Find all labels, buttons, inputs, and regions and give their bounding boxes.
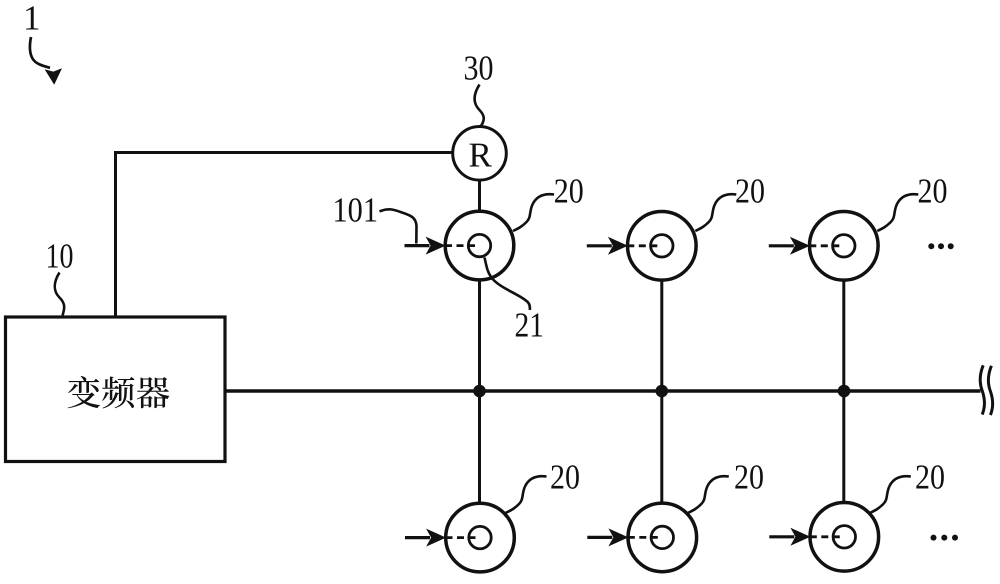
leader for M5 label 20 (688, 476, 729, 513)
motor M1 inlet arrowhead (426, 237, 446, 255)
svg-text:20: 20 (554, 172, 584, 211)
svg-text:R: R (469, 136, 493, 175)
motor M6 inner circle (833, 526, 855, 548)
ellipsis bottom row (931, 535, 937, 541)
motor M3 dashed flow line (809, 244, 840, 247)
motor M6 dashed flow line (810, 535, 841, 538)
motor M1 outer circle (445, 211, 514, 280)
motor M2 inlet arrow shaft (587, 244, 612, 247)
motor M6 outer circle (810, 503, 879, 572)
motor M6 inlet arrow shaft (769, 535, 794, 538)
leader for label 101 (380, 209, 417, 243)
junction dot node 1 (473, 385, 486, 398)
svg-text:30: 30 (464, 49, 494, 88)
wire from inverter top to resistor R (116, 153, 453, 318)
motor M2 dashed flow line (627, 244, 658, 247)
motor M3 inlet arrowhead (790, 237, 810, 255)
motor M4 outer circle (446, 503, 515, 572)
motor M3 outer circle (810, 212, 879, 281)
wire resistor R to motor M1 (478, 180, 481, 212)
wire M2 down through bus to M5 (660, 279, 663, 504)
leader for M1 label 20 (513, 194, 554, 231)
motor M2 inlet arrowhead (608, 237, 628, 255)
svg-text:20: 20 (918, 172, 948, 211)
motor M2 outer circle (628, 212, 697, 281)
motor M4 inner circle (469, 526, 491, 548)
motor M5 inlet arrow shaft (587, 536, 612, 539)
leader for M6 label 20 (870, 476, 911, 513)
ellipsis top row (928, 243, 934, 249)
motor M4 dashed flow line (446, 536, 477, 539)
leader squiggle for label 30 (475, 85, 484, 127)
motor M4 inlet arrowhead (426, 529, 446, 547)
bus break symbol (980, 365, 984, 414)
leader arrow for label 1 (30, 37, 50, 68)
motor M5 dashed flow line (628, 536, 659, 539)
svg-text:20: 20 (550, 458, 580, 497)
svg-text:20: 20 (915, 458, 945, 497)
inverter box 10 (6, 317, 226, 462)
leader for M4 label 20 (506, 476, 547, 513)
motor M3 inlet arrow shaft (769, 244, 794, 247)
resistor R circle 30 (453, 127, 507, 181)
leader for M3 label 20 (877, 194, 918, 231)
svg-text:1: 1 (23, 0, 41, 38)
leader for M2 label 20 (695, 194, 736, 231)
svg-text:10: 10 (46, 237, 74, 276)
motor M3 inner circle (833, 235, 855, 257)
motor M5 inlet arrowhead (608, 528, 628, 546)
junction dot node 3 (838, 385, 851, 398)
motor M2 inner circle (651, 235, 673, 257)
svg-text:21: 21 (515, 306, 545, 345)
junction dot node 2 (656, 385, 669, 398)
motor M1 inlet arrow shaft (405, 244, 430, 247)
svg-text:20: 20 (735, 172, 765, 211)
wire M3 down through bus to M6 (842, 279, 845, 503)
svg-text:101: 101 (333, 191, 379, 230)
leader squiggle for label 10 (55, 273, 64, 316)
motor M1 inner circle (468, 234, 490, 256)
motor M5 outer circle (628, 503, 697, 572)
motor M5 inner circle (651, 526, 673, 548)
motor M6 inlet arrowhead (790, 528, 810, 546)
bus line from inverter (225, 389, 980, 393)
motor M1 dashed flow line (445, 244, 476, 247)
motor M4 inlet arrow shaft (405, 536, 430, 539)
svg-text:20: 20 (734, 458, 764, 497)
wire M1 down through bus to M4 (478, 279, 481, 504)
inverter label text 变频器 (68, 376, 170, 408)
leader for label 21 from inner circle (485, 258, 530, 311)
